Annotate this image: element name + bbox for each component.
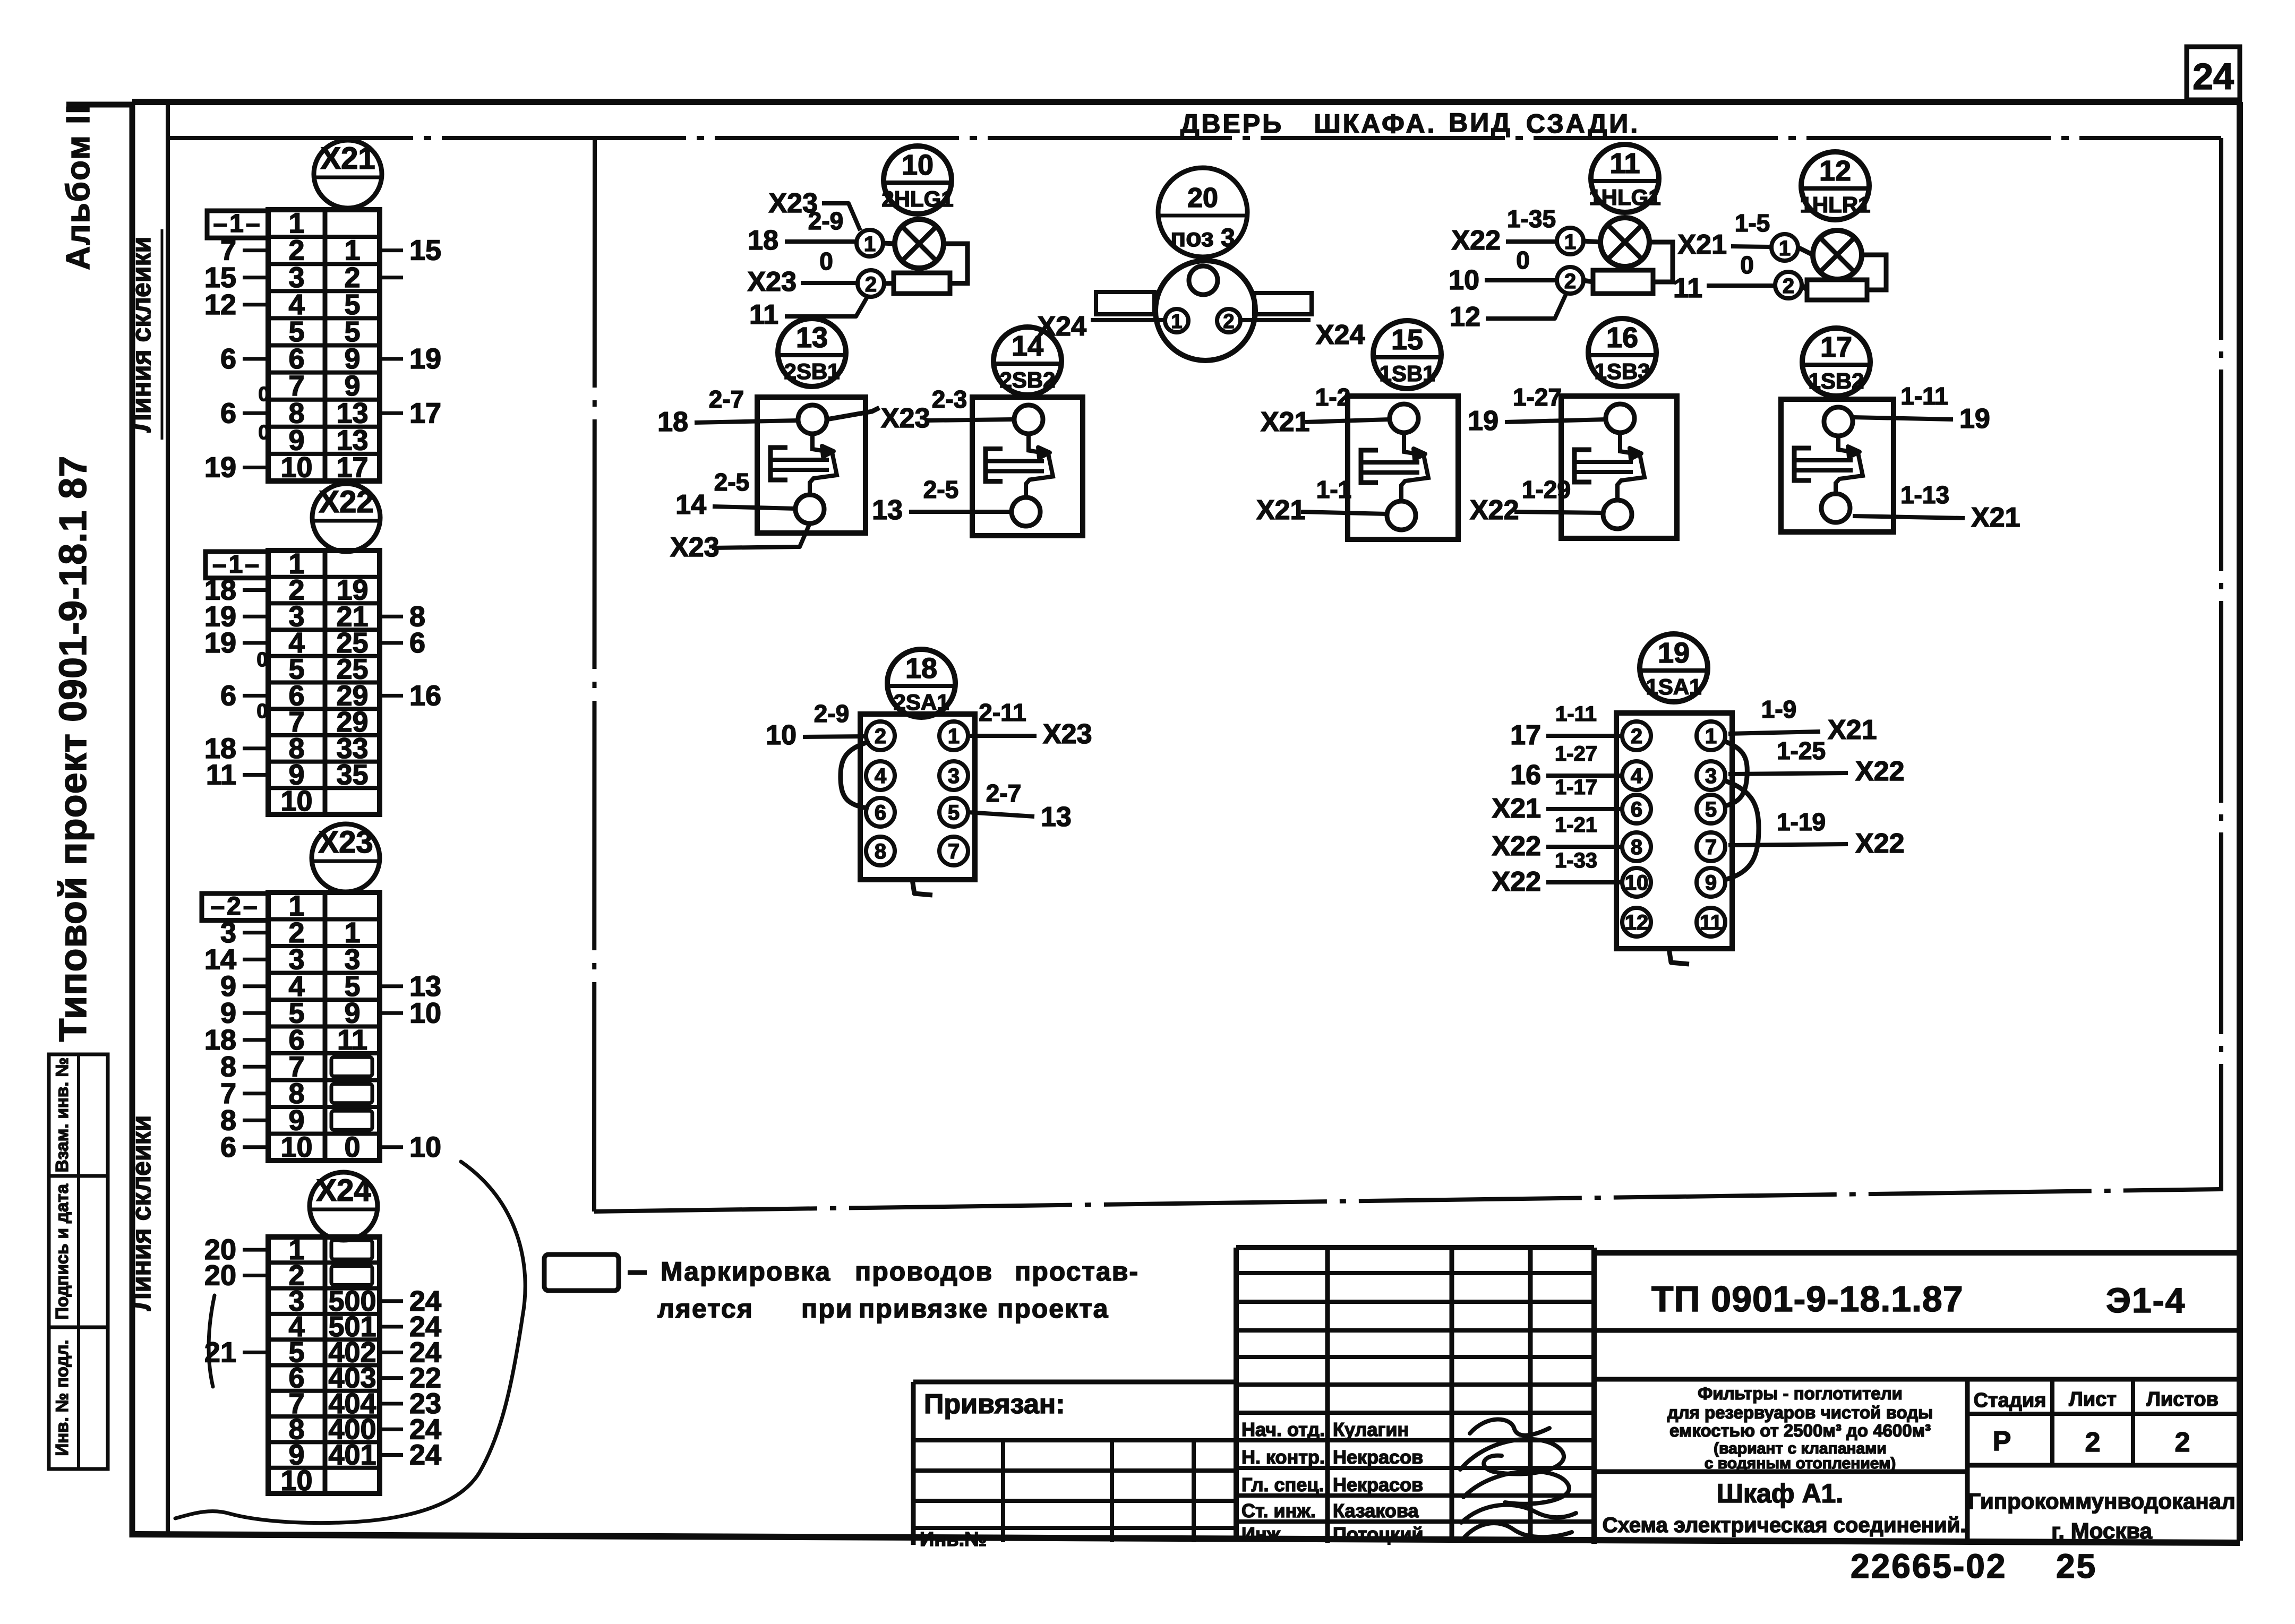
svg-text:19: 19 [204,627,236,659]
lamp 1HLR1 wire 11 [1673,251,1774,304]
svg-text:ВИД: ВИД [1449,108,1512,138]
2SA1 wire pin5 2-7 13 [968,779,1072,832]
svg-text:X23: X23 [670,532,720,563]
terminal X21 row 3 [204,262,403,294]
2SB1 wire 14 / 2-5 [675,468,795,520]
terminal X21 row 4 [204,289,361,321]
svg-text:Альбом II: Альбом II [60,104,97,270]
svg-text:Некрасов: Некрасов [1333,1446,1423,1468]
terminal block X21 designator circle [314,140,382,208]
terminal X22 row 1 [288,548,304,580]
svg-text:3: 3 [948,764,960,788]
stage/sheet headers [1974,1388,2219,1458]
switch 2SA1 pin 3 [939,761,968,790]
terminal X23 row 4 [220,970,441,1002]
lamp 1HLG1 symbol [1600,218,1649,267]
switch 2SA1 pin 1 [939,721,968,750]
svg-text:25: 25 [2056,1547,2097,1585]
svg-text:19: 19 [409,343,441,375]
svg-text:13: 13 [1041,802,1072,832]
terminal X24 row 3 [288,1285,441,1317]
svg-text:1SB2: 1SB2 [1808,368,1864,393]
push button 1SB1 designator circle 15 [1373,321,1441,389]
2SB1 wire out X23 (top right) [827,408,879,419]
svg-text:Гипрокоммунводоканал: Гипрокоммунводоканал [1968,1489,2236,1514]
1SA1 right jumper pin1-pin5 [1727,742,1747,805]
svg-text:2SA1: 2SA1 [893,690,949,715]
svg-text:19: 19 [1959,403,1990,434]
small 0 marks X22 [256,649,268,723]
selector switch 1SA1 designator circle 19 [1640,634,1708,702]
lamp 2HLG1 loop wire [944,244,967,283]
terminal X21 row 7 [288,370,360,402]
svg-text:1HLR1: 1HLR1 [1800,192,1870,217]
svg-text:2-3: 2-3 [932,385,967,413]
svg-text:Некрасов: Некрасов [1333,1474,1423,1496]
terminal X21 row 1 [288,208,304,239]
svg-text:Н. контр.: Н. контр. [1241,1446,1325,1468]
svg-text:0: 0 [258,422,269,444]
switch 2SA1 pin 7 [939,837,968,865]
svg-text:X23: X23 [318,825,373,860]
terminal X22 row 3 [204,600,425,632]
terminal X21 row 8 [220,397,441,429]
svg-text:X23: X23 [747,267,797,297]
terminal block X23 table grid [268,892,380,1161]
svg-text:6: 6 [1631,798,1642,821]
svg-text:проводов: проводов [855,1257,993,1286]
svg-text:X21: X21 [1256,495,1306,526]
svg-text:2-9: 2-9 [808,207,843,235]
svg-text:X21: X21 [320,141,375,176]
push button 1SB2 body [1781,399,1894,532]
terminal block X24 header cell [0,0,3,3]
terminal block X22 header cell [205,551,268,579]
terminal X24 row 9 [288,1439,441,1471]
svg-text:Э1-4: Э1-4 [2106,1281,2186,1320]
svg-text:2: 2 [1223,311,1234,333]
switch 1SA1 pin 11 [1697,908,1725,936]
svg-text:0: 0 [819,247,833,275]
component 20 right marking rect [1254,293,1312,314]
svg-text:1: 1 [1705,725,1717,748]
terminal X21 row 6 [220,343,441,375]
svg-text:0: 0 [1516,246,1530,274]
lamp 1HLR1 wire X21 1-5 [1677,209,1770,260]
svg-text:1-11: 1-11 [1900,382,1948,410]
push button 1SB1 actuator [1361,433,1428,501]
svg-text:18: 18 [905,652,937,684]
svg-text:2-9: 2-9 [814,700,849,727]
margin text ALBOM II [60,104,97,270]
svg-text:1-27: 1-27 [1513,383,1562,411]
svg-text:10: 10 [280,1131,312,1163]
svg-text:0: 0 [344,1131,360,1163]
svg-text:1: 1 [864,233,876,256]
push button 1SB1 bottom contact [1387,501,1416,530]
svg-text:7: 7 [948,840,960,863]
switch 1SA1 pin 12 [1622,908,1651,936]
terminal X22 row 6 [220,680,441,711]
svg-text:2-7: 2-7 [709,385,744,413]
component 20 pin 1 [1165,309,1188,333]
svg-text:18: 18 [748,225,778,256]
component 20 right wire X24 [1240,320,1365,350]
svg-text:Стадия: Стадия [1974,1389,2046,1412]
selector switch 2SA1 body [860,714,975,880]
switch 1SA1 pin 1 [1697,721,1725,750]
svg-text:4: 4 [875,764,887,788]
svg-text:19: 19 [1658,637,1690,669]
svg-text:10: 10 [280,451,312,483]
terminal X24 row 1 [204,1234,372,1266]
push button 1SB3 top contact [1606,404,1634,433]
svg-text:8: 8 [1631,836,1642,859]
svg-text:10: 10 [409,1131,441,1163]
push button 1SB1 top contact [1390,404,1418,433]
svg-text:X21: X21 [1971,502,2020,533]
svg-text:2: 2 [1783,274,1794,298]
svg-text:X21: X21 [1828,715,1877,745]
scan crease around X24 [175,1162,525,1523]
push button 1SB3 actuator [1574,433,1645,500]
svg-text:1-29: 1-29 [1522,476,1571,503]
svg-text:Линия склейки: Линия склейки [126,1115,156,1311]
svg-text:10: 10 [280,1465,312,1497]
1SB2 wire 1-13 / X21 (right out bottom) [1853,481,2020,533]
svg-text:2: 2 [865,273,877,296]
svg-text:1HLG1: 1HLG1 [1589,185,1660,210]
lamp 1HLR1 symbol [1813,230,1862,279]
svg-text:1-2: 1-2 [1315,383,1350,411]
svg-text:Инж.: Инж. [1241,1523,1286,1545]
svg-text:11: 11 [1700,911,1722,934]
2SA1 left jumper pin2-pin6 [841,742,868,808]
svg-text:Р: Р [1993,1426,2011,1457]
svg-text:1-19: 1-19 [1777,808,1826,836]
margin text TIPOVOJ PROEKT [52,456,95,1042]
lamp 2HLG1 pin 2 [858,270,894,297]
lamp 2HLG1 symbol [895,219,944,268]
terminal X24 row 10 [280,1465,312,1497]
svg-text:13: 13 [796,322,828,354]
switch 1SA1 pin 3 [1697,761,1725,790]
terminal block X21 header cell [207,210,268,238]
component 20 left marking rect [1096,292,1154,314]
svg-text:2: 2 [875,725,886,748]
svg-text:X22: X22 [1492,831,1541,862]
svg-text:X21: X21 [1492,793,1541,824]
svg-text:X22: X22 [1855,828,1905,859]
svg-text:X22: X22 [319,485,373,519]
svg-text:2-11: 2-11 [979,699,1026,726]
svg-text:10: 10 [280,785,312,817]
svg-text:401: 401 [328,1439,376,1471]
1SA1 right wire pin3 1-25 X22 [1728,737,1905,787]
terminal block X22 table grid [268,551,380,814]
terminal X24 row 4 [288,1311,441,1343]
svg-text:1: 1 [1171,311,1182,333]
svg-text:19: 19 [204,451,236,483]
svg-text:9: 9 [1705,871,1717,895]
svg-text:ДВЕРЬ: ДВЕРЬ [1180,109,1283,139]
indicator lamp 2HLG1 designator circle 10 [881,146,953,214]
svg-text:16: 16 [409,680,441,711]
svg-text:поз 3: поз 3 [1170,224,1235,252]
svg-text:1-21: 1-21 [1555,813,1597,837]
lamp 1HLR1 loop wire [1862,255,1886,290]
svg-text:X21: X21 [1677,229,1727,260]
title block object [1603,1479,1966,1537]
selector switch 2SA1 designator circle 18 [887,649,955,717]
svg-text:5: 5 [948,801,960,824]
switch 2SA1 mounting tail [912,880,932,895]
terminal block X24 designator circle [310,1172,378,1240]
glue-line boundary right vertical (dash-dot) [2219,138,2223,1191]
svg-text:X23: X23 [1043,719,1092,750]
switch 1SA1 pin 4 [1622,761,1651,790]
terminal X22 row 8 [204,733,369,764]
title: DVER SHKAFA. VID SZADI. [1180,108,1640,139]
terminal X22 row 10 [280,785,312,817]
push button 1SB3 body [1561,396,1677,538]
svg-text:0: 0 [256,700,268,723]
push button 2SB2 actuator [986,434,1053,497]
svg-text:Схема электрическая соединений: Схема электрическая соединений. [1603,1514,1966,1537]
indicator lamp 1HLG1 designator circle 11 [1589,144,1660,212]
lamp 1HLR1 ballast resistor [1807,280,1867,300]
lamp 1HLG1 wire 10 [1449,246,1556,296]
svg-text:Листов: Листов [2146,1388,2219,1411]
svg-text:ТП 0901-9-18.1.87: ТП 0901-9-18.1.87 [1651,1279,1964,1319]
terminal X23 row 3 [204,943,361,975]
switch 1SA1 pin 5 [1697,795,1725,823]
push button 1SB2 actuator [1794,436,1863,494]
lamp 1HLG1 ballast resistor [1593,270,1653,294]
terminal X24 row 5 [204,1336,441,1368]
selector switch 1SA1 body [1616,713,1732,949]
svg-text:1: 1 [1564,230,1576,254]
terminal X23 row 6 [204,1024,367,1056]
svg-text:24: 24 [2193,56,2234,97]
svg-text:1-33: 1-33 [1555,849,1597,872]
svg-text:2HLG1: 2HLG1 [881,186,953,211]
svg-text:17: 17 [1820,331,1852,363]
push button 2SB1 top contact [798,405,827,434]
svg-text:18: 18 [657,407,688,437]
terminal block X23 designator circle [312,824,380,892]
svg-text:Нач. отд.: Нач. отд. [1241,1419,1325,1440]
svg-text:Привязан:: Привязан: [924,1389,1065,1420]
svg-text:17: 17 [1510,720,1541,751]
title block description [1667,1384,1933,1472]
svg-text:X21: X21 [1261,407,1310,437]
svg-text:2: 2 [1631,725,1642,748]
svg-text:Шкаф А1.: Шкаф А1. [1717,1479,1844,1508]
svg-text:15: 15 [409,235,441,267]
terminal X23 row 8 [220,1078,372,1110]
small 0 marks X21 [258,383,269,444]
terminal X23 row 2 [220,917,361,949]
switch 2SA1 pin 5 [939,798,968,827]
legend marking rectangle [544,1254,647,1291]
terminal X21 row 5 [288,316,360,348]
pривязан block [913,1382,1236,1551]
svg-text:X22: X22 [1470,495,1519,526]
terminal X22 row 9 [206,759,369,790]
svg-text:3: 3 [1705,764,1717,788]
svg-text:11: 11 [337,1024,367,1056]
svg-text:1-35: 1-35 [1507,205,1556,233]
svg-text:1-9: 1-9 [1761,695,1796,723]
svg-text:2: 2 [2175,1427,2190,1458]
svg-text:19: 19 [1468,406,1498,436]
svg-text:10: 10 [1449,265,1479,296]
terminal X22 row 2 [204,574,369,606]
lamp 1HLG1 loop wire [1649,242,1673,282]
push button 2SB1 bottom contact [795,495,824,523]
push button 1SB2 bottom contact [1821,494,1850,522]
lamp 2HLG1 wire 11 to pin2 [749,296,868,330]
svg-text:13: 13 [872,495,903,526]
push button 2SB2 top contact [1014,405,1043,434]
1SB1 wire X21 1-2 [1261,383,1390,437]
1SB2 wire 1-11 / 19 (right out top) [1853,382,1990,434]
indicator lamp 1HLR1 designator circle 12 [1800,152,1870,220]
lamp 1HLR1 pin 2 [1775,272,1807,298]
push button 2SB1 actuator [770,434,837,495]
glue line label bottom [126,1115,156,1311]
svg-text:2: 2 [1564,270,1576,293]
svg-text:4: 4 [1631,764,1643,788]
svg-text:1-25: 1-25 [1777,737,1826,764]
svg-text:6: 6 [220,1131,236,1163]
svg-text:6: 6 [875,801,886,824]
svg-text:Подпись и дата: Подпись и дата [52,1184,72,1320]
switch 2SA1 pin 2 [866,721,895,750]
svg-text:10: 10 [1625,871,1649,895]
title block texts: TP number [1651,1279,2186,1320]
legend text [657,1257,1139,1324]
archive number 22665-02 25 [1851,1547,2097,1585]
terminal X23 row 1 [288,890,304,922]
svg-text:5: 5 [1705,798,1717,821]
svg-text:X24: X24 [1316,320,1365,350]
terminal block X22 designator circle [312,484,380,552]
svg-text:11: 11 [1609,148,1640,179]
svg-text:17: 17 [336,451,368,483]
push button 1SB2 top contact [1824,407,1853,436]
lamp 2HLG1 pin 1 [857,230,895,256]
svg-text:Инв. № подл.: Инв. № подл. [52,1340,72,1456]
svg-text:ШКАФА.: ШКАФА. [1314,109,1436,139]
svg-text:при: при [801,1294,853,1324]
lamp 2HLG1 wire X23 to pin2 [747,247,857,297]
svg-text:1-17: 1-17 [1555,776,1597,799]
signature rows [1241,1419,1424,1545]
svg-text:0: 0 [256,649,268,671]
svg-text:11: 11 [1673,273,1702,304]
terminal X22 row 4 [204,627,425,659]
glue-line boundary left vertical (dash-dot) [594,138,595,1211]
svg-text:14: 14 [675,489,706,520]
1SA1 left wires [1492,702,1621,897]
svg-text:привязке: привязке [859,1294,988,1324]
terminal X23 row 5 [220,997,441,1029]
2SA1 wire 10 2-9 [766,700,866,751]
switch 2SA1 pin 6 [866,798,895,827]
svg-text:10: 10 [766,720,797,751]
terminal X24 row 7 [288,1388,441,1420]
component 20 body (socket) [1155,261,1255,360]
svg-text:X24: X24 [316,1173,371,1208]
svg-text:–1–: –1– [213,210,262,238]
svg-text:6: 6 [220,680,236,711]
terminal X23 row 10 [220,1131,441,1163]
svg-text:для резервуаров чистой воды: для резервуаров чистой воды [1667,1403,1933,1422]
lamp 2HLG1 wire X23 to pin1 [748,188,860,256]
svg-text:1SA1: 1SA1 [1646,674,1701,699]
terminal block X24 table grid [268,1237,380,1493]
component 20 pin 2 [1217,309,1240,333]
push button 1SB1 body [1348,396,1458,539]
switch 1SA1 pin 7 [1697,832,1725,861]
svg-text:Инв.№: Инв.№ [920,1528,987,1551]
switch 1SA1 pin 6 [1622,795,1651,823]
component 20 designator circle [1158,168,1247,257]
push button 1SB3 designator circle 16 [1588,319,1656,386]
svg-text:14: 14 [1012,330,1043,362]
1SB3 wire 19 1-27 [1468,383,1606,436]
svg-text:емкостью от 2500м³ до 4600м³: емкостью от 2500м³ до 4600м³ [1669,1421,1931,1440]
switch 1SA1 pin 10 [1622,868,1651,897]
svg-text:Линия склейки: Линия склейки [126,237,156,433]
terminal X23 row 9 [220,1104,372,1136]
svg-text:X22: X22 [1451,225,1501,256]
terminal X21 row 2 [220,235,441,267]
svg-text:1: 1 [1779,237,1791,260]
push button 2SB1 body [757,397,866,533]
svg-text:35: 35 [336,759,368,790]
lamp 1HLR1 pin 1 [1771,234,1813,261]
2SB2 wire X23 2-3 [881,385,1014,434]
svg-text:2SB2: 2SB2 [999,367,1055,392]
svg-text:2-5: 2-5 [714,468,749,496]
svg-text:Маркировка: Маркировка [661,1257,831,1286]
terminal X22 row 5 [288,654,368,685]
terminal X24 row 8 [288,1413,441,1445]
organization [1968,1489,2236,1543]
terminal X21 row 9 [288,424,368,456]
svg-text:1-5: 1-5 [1735,209,1770,237]
title block grid [1236,1248,2240,1544]
svg-text:Ст. инж.: Ст. инж. [1241,1500,1316,1522]
svg-text:Гл. спец.: Гл. спец. [1241,1474,1324,1496]
svg-text:16: 16 [1606,322,1638,354]
terminal X24 row 2 [204,1259,372,1291]
svg-text:12: 12 [1819,155,1851,187]
svg-text:20: 20 [1187,183,1218,213]
lamp 1HLG1 wire 12 [1450,293,1566,332]
push button 2SB1 designator circle 13 [778,319,846,386]
component 20 left wire X24 [1037,311,1165,342]
svg-text:Потоцкий: Потоцкий [1333,1523,1424,1545]
1SB1 wire X21 1-1 [1256,476,1387,526]
svg-text:1-27: 1-27 [1555,742,1597,766]
svg-text:6: 6 [220,343,236,375]
svg-text:6: 6 [220,397,236,429]
svg-text:1-13: 1-13 [1900,481,1949,509]
